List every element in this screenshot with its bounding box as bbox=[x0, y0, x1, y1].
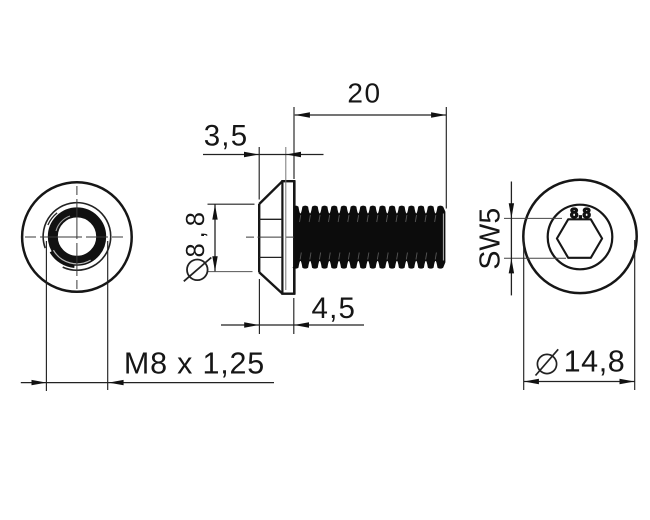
dimension 3,5: text label bbox=[204, 120, 249, 153]
right view: hex socket bbox=[557, 219, 602, 257]
dimension 3,5: right arrow bbox=[286, 152, 301, 157]
side view: screw axis centerline bbox=[246, 236, 298, 238]
left view: thread bore thick ring bbox=[48, 211, 101, 266]
dimension Ø14,8: left arrow bbox=[524, 379, 539, 384]
side view: thread texture slivers bbox=[300, 215, 437, 260]
dimension 20: right arrow bbox=[431, 112, 446, 117]
right view: 8.8 strength marking bbox=[570, 206, 591, 222]
dimension 4,5: left arrow bbox=[244, 322, 259, 327]
dimension Ø8,8: diameter symbol slash bbox=[184, 258, 212, 282]
dimension M8x1.25: right arrow bbox=[109, 380, 124, 385]
svg-text:SW5: SW5 bbox=[474, 208, 506, 270]
dimension 3,5: left arrow bbox=[244, 152, 259, 157]
dimension M8x1.25: right extension line bbox=[107, 241, 109, 390]
dimension 4,5: text label bbox=[311, 292, 356, 325]
side view: socket lower line bbox=[259, 256, 282, 258]
dimension Ø8,8: top extension line bbox=[208, 203, 255, 205]
left view: head outer circle bbox=[22, 182, 132, 292]
side view: head rim bottom edge bbox=[281, 293, 295, 295]
dimension M8x1.25: left arrow bbox=[32, 380, 47, 385]
side view: socket upper line bbox=[259, 218, 282, 220]
dimension 20: dimension line bbox=[295, 114, 447, 116]
side view: head bearing face (right) bbox=[293, 180, 296, 294]
left view: horizontal centerline bbox=[25, 236, 127, 238]
dimension Ø14,8: diameter symbol slash bbox=[536, 349, 559, 375]
side view: head cone-rim junction line bbox=[281, 181, 283, 293]
dimension Ø14,8: dimension line bbox=[524, 381, 635, 383]
dimension Ø8,8: dimension line bbox=[214, 205, 216, 272]
dimension M8x1.25: left extension line bbox=[45, 241, 47, 391]
svg-text:3,5: 3,5 bbox=[204, 120, 249, 153]
dimension 20: left arrow bbox=[295, 112, 310, 117]
side view: threaded shank (black thread profile) bbox=[293, 206, 445, 268]
side view: head rim top edge bbox=[281, 180, 295, 182]
dimension Ø8,8: bottom extension line bbox=[208, 271, 253, 273]
dimension 4,5: right arrow bbox=[294, 322, 309, 327]
svg-text:8,8: 8,8 bbox=[182, 207, 210, 257]
dimension Ø8,8: rotated text label 8,8 bbox=[182, 207, 210, 257]
dimension Ø8,8: diameter symbol circle bbox=[187, 260, 208, 281]
dimension Ø8,8: bottom arrow bbox=[212, 256, 217, 271]
left view: thread major-diameter thin arc bbox=[43, 203, 111, 271]
svg-text:M8 x 1,25: M8 x 1,25 bbox=[124, 347, 265, 381]
dimension 20: left extension line bbox=[293, 107, 295, 179]
dimension 4,5: left extension line bbox=[258, 279, 260, 334]
dimension SW5: dimension line bbox=[510, 182, 512, 296]
dimension 3,5: left extension line bbox=[258, 147, 260, 200]
svg-text:20: 20 bbox=[347, 78, 381, 109]
side view: head bottom cone slope bbox=[259, 272, 282, 293]
dimension SW5: bottom arrow bbox=[509, 258, 514, 273]
right view: socket chamfer inner circle bbox=[548, 205, 613, 270]
dimension SW5: top extension line bbox=[504, 217, 562, 219]
right view: head outer circle bbox=[523, 180, 636, 293]
dimension 20: text label bbox=[347, 78, 381, 109]
dimension SW5: top arrow bbox=[509, 203, 514, 218]
dimension 4,5: right extension line bbox=[293, 298, 295, 334]
left view: vertical centerline bbox=[76, 186, 78, 289]
dimension 4,5: dimension line bbox=[221, 324, 364, 326]
svg-text:4,5: 4,5 bbox=[311, 292, 356, 325]
dimension Ø14,8: left extension line bbox=[523, 240, 525, 390]
dimension 20: right extension line bbox=[445, 107, 447, 209]
dimension M8x1.25: dimension line bbox=[21, 382, 274, 384]
dimension 3,5: dimension line bbox=[203, 154, 324, 156]
dimension Ø14,8: right arrow bbox=[620, 379, 635, 384]
svg-text:8.8: 8.8 bbox=[570, 206, 591, 222]
dimension Ø14,8: diameter symbol circle bbox=[537, 354, 556, 373]
dimension Ø8,8: top arrow bbox=[212, 205, 217, 220]
dimension 3,5: right extension line (continues into head) bbox=[285, 147, 287, 290]
dimension SW5: bottom extension line bbox=[504, 257, 566, 259]
side view: head top cone slope bbox=[259, 181, 282, 204]
side view: thread end face sliver bbox=[442, 214, 444, 261]
side view: head left face bbox=[258, 204, 260, 273]
dimension Ø14,8: right extension line bbox=[634, 240, 636, 390]
dimension SW5: rotated text label bbox=[474, 208, 506, 270]
dimension M8x1.25: text label bbox=[124, 347, 265, 381]
dimension Ø14,8: text label bbox=[564, 345, 626, 379]
svg-text:14,8: 14,8 bbox=[564, 345, 626, 379]
